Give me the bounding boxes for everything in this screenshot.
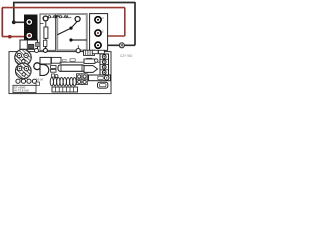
- controller terminal box U1: [90, 14, 108, 51]
- battery connector block: [20, 40, 40, 49]
- potentiometer VR2: [15, 63, 31, 81]
- transistor Q1: [40, 65, 49, 76]
- terminal block TB1: [100, 54, 109, 75]
- wire red top horizontal: [2, 7, 125, 9]
- pin header P2: [84, 50, 95, 55]
- mounting hole right: [77, 45, 79, 48]
- PCB outline: [9, 52, 111, 94]
- inductor L1 coil: [50, 78, 76, 86]
- pad squares left of relay: [77, 74, 88, 85]
- mounting hole left: [43, 48, 47, 52]
- node battery positive junction: [12, 20, 16, 24]
- wire black bottom to controller: [100, 44, 135, 46]
- svg-text:CZY WD: CZY WD: [120, 54, 133, 58]
- pads row: [16, 79, 37, 83]
- svg-text:O-SPD-SL-: O-SPD-SL-: [48, 14, 72, 18]
- wire red right vertical: [124, 8, 126, 36]
- node red junction: [8, 35, 12, 39]
- wire black top horizontal: [13, 2, 135, 4]
- terminal 2: [95, 30, 101, 36]
- relay K2 with connector: [89, 75, 111, 81]
- capacitor C9: [98, 82, 108, 88]
- resistor R6: [87, 58, 92, 62]
- small pad: [95, 59, 98, 62]
- long trace: [60, 61, 101, 63]
- svg-text:B5-06: B5-06: [36, 77, 43, 81]
- crystal Y1: [44, 40, 47, 46]
- resistor R1: [44, 27, 48, 38]
- wire red to battery terminal: [2, 36, 27, 38]
- small pad circle D1: [34, 63, 41, 70]
- label box: [13, 85, 36, 92]
- wire red left vertical: [1, 8, 3, 37]
- terminal 3: [95, 42, 101, 48]
- component box: [51, 57, 61, 63]
- svg-text:HY.TZ.E-A00: HY.TZ.E-A00: [14, 90, 29, 93]
- relay K1: [40, 57, 51, 64]
- wire to battery terminal: [14, 21, 27, 23]
- wire black left vertical: [13, 2, 15, 22]
- arrow component: [84, 66, 98, 73]
- connector symbol on black wire: [119, 43, 124, 48]
- switch SW1 box: [48, 14, 87, 50]
- charge jack J1: [40, 14, 56, 50]
- wire black right vertical: [134, 2, 136, 45]
- pin strip under coil: [52, 87, 78, 92]
- switch lever: [57, 28, 71, 35]
- switch top terminal: [75, 17, 80, 22]
- resistor R5: [70, 59, 75, 62]
- switch lower contact: [69, 38, 72, 41]
- battery pack BT1: [24, 15, 38, 41]
- top small blocks: [92, 50, 98, 53]
- wire red to controller terminal: [101, 35, 125, 37]
- potentiometer VR1: [15, 49, 32, 67]
- power resistor R10 cylinder: [58, 65, 85, 71]
- terminal 1: [95, 17, 101, 23]
- diode box: [84, 59, 95, 63]
- tiny parts: [51, 65, 56, 68]
